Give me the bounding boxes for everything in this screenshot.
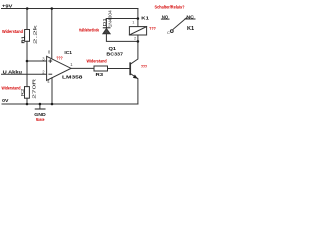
svg-text:Halbleiterdiode: Halbleiterdiode [79, 27, 99, 32]
transistor Q1 emitter arrow [133, 75, 138, 79]
resistor R3 [94, 66, 108, 71]
svg-text:R3: R3 [96, 72, 104, 78]
svg-text:K1: K1 [141, 16, 149, 22]
svg-text:???: ??? [141, 64, 147, 69]
op-amp IC1 triangle [47, 56, 71, 80]
diode D1 bottom lead and wire to collector node [106, 34, 137, 42]
resistor R2 [25, 87, 30, 99]
wire R2 bottom to 0V rail [26, 98, 28, 104]
relay contact lever [173, 18, 186, 29]
wire 0V bottom rail [2, 103, 138, 105]
svg-text:Masse: Masse [36, 117, 45, 122]
svg-text:4: 4 [47, 79, 50, 84]
diode D1 top lead and wire to relay node [106, 19, 137, 28]
transistor Q1 base bar [129, 63, 131, 74]
relay coil K1 box [129, 27, 146, 35]
relay contact common pivot circle [170, 30, 173, 33]
svg-text:R1: R1 [20, 35, 25, 43]
svg-text:NC: NC [186, 14, 194, 19]
wire R1 top from rail [26, 9, 28, 30]
wire R3 to Q1 base [108, 68, 130, 70]
wire op-amp pin 8 V+ to rail [51, 9, 53, 59]
svg-text:R2: R2 [20, 88, 25, 96]
svg-text:2: 2 [134, 35, 136, 40]
junction dot 0V/pin4 [51, 103, 54, 106]
svg-text:1N4004: 1N4004 [108, 10, 113, 28]
svg-text:BC337: BC337 [106, 51, 123, 57]
svg-text:IC1: IC1 [64, 50, 72, 56]
svg-text:???: ??? [56, 55, 63, 60]
junction dot diode top / relay top [137, 17, 140, 20]
junction dot divider/pin3 [26, 60, 29, 63]
relay contact NO terminal [161, 18, 169, 20]
svg-text:Widerstand: Widerstand [2, 85, 21, 90]
svg-text:Widerstand: Widerstand [87, 59, 108, 64]
wire R1 bottom to R2 top [26, 41, 28, 86]
relay coil diagonal [129, 27, 146, 35]
svg-text:K1: K1 [187, 26, 194, 32]
svg-text:C: C [167, 30, 170, 35]
transistor Q1 collector [131, 35, 138, 64]
resistor R1 [25, 30, 30, 42]
op-amp minus mark [49, 73, 52, 75]
svg-text:+9V: +9V [2, 3, 13, 9]
junction dot 0V/GND [39, 103, 42, 106]
svg-text:NO: NO [162, 14, 169, 19]
junction dot +9V/pin8 [51, 7, 54, 10]
ground symbol stem [39, 104, 41, 109]
wire U_Akku to op-amp pin 2 [2, 73, 47, 75]
svg-text:Q1: Q1 [109, 46, 117, 52]
diode D1 triangle [103, 29, 110, 34]
transistor Q1 emitter [131, 74, 138, 104]
svg-text:Schalter/Relais?: Schalter/Relais? [155, 5, 185, 10]
svg-text:D1: D1 [102, 17, 107, 26]
op-amp plus mark [49, 60, 52, 63]
svg-text:0V: 0V [2, 98, 9, 104]
wire relay top pin from rail [137, 9, 139, 27]
relay contact NC terminal [185, 18, 195, 20]
wire divider node to op-amp pin 3 [27, 60, 47, 62]
svg-text:???: ??? [149, 26, 156, 31]
svg-text:2.2k: 2.2k [33, 24, 38, 45]
junction dot +9V/R1 [26, 7, 29, 10]
svg-text:LM358: LM358 [62, 75, 83, 81]
wire op-amp pin 4 V- to 0V rail [51, 78, 53, 104]
junction dot 0V/R2 [26, 103, 29, 106]
svg-text:1: 1 [132, 19, 134, 24]
wire op-amp output to R3 [71, 67, 94, 69]
svg-text:8: 8 [48, 49, 51, 54]
junction dot diode bottom / collector [137, 40, 140, 43]
wire +9V top rail [2, 8, 138, 10]
svg-text:Widerstand: Widerstand [2, 29, 23, 34]
svg-text:1: 1 [70, 62, 73, 67]
diode D1 cathode bar [103, 27, 111, 28]
svg-text:270R: 270R [32, 77, 37, 98]
svg-text:U Akku: U Akku [3, 70, 23, 75]
ground symbol bar [35, 108, 45, 110]
